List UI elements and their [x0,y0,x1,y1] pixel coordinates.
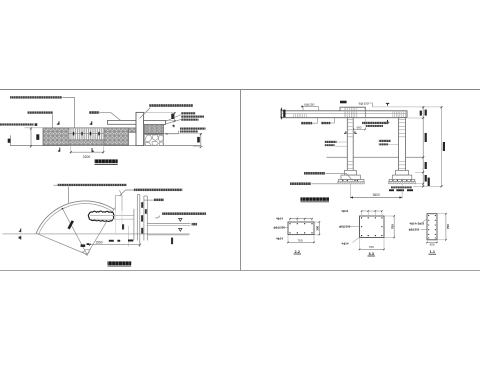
dimension: 1500 from vertex to column [90,244,140,246]
wall: left masonry panel (crosshatch) [43,128,69,145]
dimension: block wall height (right) [164,132,202,134]
wire: dim extension at plan left [128,226,130,247]
wire: radial to arc right end [87,208,115,255]
note: culture stone retaining wall (far left) [0,123,34,125]
svg-text:600: 600 [357,125,362,129]
svg-text:300: 300 [429,243,434,247]
beam: stirrup ticks group 2 [344,108,358,118]
wall: rubble stone base outline [144,135,163,146]
footing: right rebar dots [392,180,393,181]
svg-text:4ϕ14: 4ϕ14 [276,217,283,221]
sheet top rule [0,89,480,91]
column cluster: centerline [139,195,141,247]
node: joint symbol B above wall [91,121,93,125]
column: right column stirrups top [399,118,405,139]
sheet divider [240,90,242,271]
note: second note under beam [321,122,330,124]
svg-text:700: 700 [297,238,302,242]
dimension: small left level chain [9,135,11,145]
wire: leader right column note [388,144,398,146]
wire: leader to pillar from road note [140,108,151,119]
label: rotated wall height value [36,134,39,140]
node: fan vertex angle triangle [82,248,91,255]
stone feature blob (plan) [88,211,114,221]
dimension: outer vertical chain [441,107,443,186]
wire: 3-3 bottom bars leader [352,237,360,243]
section 3-3: rebar dots top [361,217,362,218]
svg-text:700: 700 [446,224,450,229]
dimension: 2-2 top spacing [290,218,312,220]
note: plywood note under cantilever [301,122,312,124]
pier at sign wall end (plan) [115,196,122,211]
wire: wall top extension line (left) [25,127,44,129]
section 1-1: rebar dots left [428,215,429,216]
wire: 2-2 stirrup leader [283,227,288,229]
ground line (section) [327,156,424,158]
section 2-2: rebar dots top [289,223,290,224]
gate pillar [136,112,144,145]
section 1-1: rebar dots right [435,215,436,216]
label: rotated level value [8,139,11,143]
sheet bottom rule [0,270,480,272]
wire: leader pair to eave notes [166,115,181,122]
note: water pipe (plan) [154,199,164,201]
beam: raised block over left column [340,107,365,111]
node: joint symbol A above wall [58,121,60,125]
footing: left footing pad [338,180,364,182]
dimension: 2-2 width 700 [288,241,314,243]
label: overall height rotated [443,142,445,151]
footing: left base hatch band [338,182,365,184]
label: rotated beam depth value [283,110,285,118]
footing: left rebar dots [342,180,343,181]
section 3-3: rebar dots bottom [361,235,362,236]
wire: plan wall line lower [90,218,134,220]
wire: leader second note [331,118,335,123]
label: rotated dim text b [141,215,143,221]
wire: leader into pier [119,190,122,195]
svg-text:6@150: 6@150 [304,103,314,107]
fence: balusters [69,129,104,140]
label: tick mark [301,106,302,108]
column: right column stirrups bottom [399,159,405,178]
note: tile facing annotation [28,111,54,113]
dimension: 3-3 top spacing [362,210,382,212]
wire: 1-1 bars leader [421,219,427,224]
footing: left footing step 2 [341,175,360,179]
svg-text:1-1: 1-1 [430,250,436,254]
note: dense note under right footing [391,186,412,188]
note: aluminium coping annotation (top-left) [10,96,62,98]
note: sign wall annotation (plan top) [58,184,127,186]
footing: right base hatch band [389,182,416,184]
section 3-3: side dots [361,226,362,227]
dimension: pillar-top to beam-top (right) [144,111,175,113]
fence: post finial 2 [81,132,82,136]
beam: stirrup ticks group 3 [393,111,407,117]
label: small dims under plan [109,240,114,242]
label: rotated height value [197,137,200,143]
label: rotated text near blob corner [122,224,124,229]
svg-text:3200: 3200 [83,155,91,159]
node: joint symbol C on block wall top [173,125,175,127]
svg-text:700: 700 [369,245,374,249]
node: joint symbol below wall A [59,148,61,152]
dimension: top annotation A (6x150) [303,105,318,107]
wire: leader from tile note [52,114,54,127]
dimension: wall height (left chain) [30,128,32,146]
section 3-3: column section outline [360,216,385,238]
section 2-2: beam section outline [288,222,314,235]
wire: radial with radius label [62,208,87,254]
svg-text:4ϕ14: 4ϕ14 [341,209,348,213]
footing: left footing step 1 [344,170,356,175]
fence: mid rail [69,133,104,135]
svg-text:ϕ8@200: ϕ8@200 [339,225,351,229]
note: eave note line 2 [181,116,204,118]
node: grade mark lower [179,228,182,231]
curved wall: inner arc [38,204,112,235]
svg-text:700: 700 [390,224,394,229]
wire: leader from inner wall note [155,216,160,218]
note: stirrup spacing note mid-beam line2 [366,125,383,127]
label: drawing title - gate and wall plan [108,261,132,265]
note: bedding layer note [304,172,325,175]
wire: leader from base note [311,183,337,185]
column cluster: edge line 4 [146,196,148,241]
axis line (plan) [3,233,191,235]
wire: leader plywood note [312,118,317,123]
column: left column stirrups bottom [348,160,353,180]
column: right column [399,118,406,179]
node: circled index mark [35,123,38,126]
dimension: 3600 between column centers [349,184,351,198]
label: rotated dim text c [141,228,143,234]
node: section cut mark below beam [386,120,389,122]
label: slope note right of wall pair [192,223,197,226]
wall: right masonry panel (crosshatch) [104,128,129,145]
wall: block facing panel right of pillar [144,124,163,133]
wire: 1-1 stirrup leader [421,228,427,230]
svg-text:2-2: 2-2 [295,250,301,254]
note: stone facing note line 2 [180,131,198,133]
dimension: 3-3 height 700 [393,216,395,238]
fence: railing top rail [69,127,104,129]
wire: 3-3 stirrup leader [350,226,360,228]
fence: post finial 3 [90,132,91,136]
label: offset value [87,243,90,245]
node: axis joint symbol lower [20,236,22,240]
svg-text:300: 300 [316,225,320,230]
svg-text:ϕ8@200: ϕ8@200 [409,227,420,231]
fence: post finial 4 [98,132,99,136]
wire: leader from sign wall note down to arc [53,185,68,203]
dimension: 3200 fence width [70,146,72,153]
note: eave note line 1 [181,112,196,114]
column cluster: edge line 2 [136,195,138,241]
canopy beam right of pillar [144,120,166,124]
beam: main top beam [281,111,407,118]
label: level mark top-left of beam zone [340,101,347,104]
column cluster: top caps [137,194,140,196]
ground line of elevation [10,145,201,147]
note: water pipe annotation [89,111,99,114]
column cluster (plan): edge line 1 [133,209,135,241]
dimension: 3-3 width 700 [360,248,385,250]
wire: radial to arc left end [36,233,87,254]
label: angle value [81,244,86,247]
wire: leader left column note [337,141,347,143]
wall: lintel strip over gate recess [129,128,137,132]
node: radial end dot [62,208,64,210]
svg-text:3600: 3600 [373,193,380,197]
beam: stirrup ticks group 1 [293,114,307,118]
dimension: 1-1 width 300 [427,241,437,243]
dimension: 1-1 height 700 [445,214,447,240]
column cluster: edge line 3 [143,196,145,241]
svg-text:4ϕ14: 4ϕ14 [342,241,349,245]
wire: leader to coping note [120,190,134,196]
label: rotated chain values [420,111,422,116]
dimension: 2-2 height 300 [318,222,320,235]
wall: dark string course under blocks [144,133,163,136]
fence: post finial 1 [73,132,74,136]
wire: lower plan wall line [147,234,189,236]
node: grade mark upper [179,218,182,221]
note: base concrete note [290,182,311,185]
label: rotated note below wall [171,238,173,245]
note: roadway finish annotation [149,104,193,107]
wall: rubble stones [145,135,152,142]
dimension: 600 step offset at left column [353,128,365,130]
label: small dims under right footing [389,189,394,191]
wire: leader to water pipe note [144,199,154,201]
svg-text:6@150: 6@150 [359,101,369,105]
fence: lower curb band [69,140,104,146]
dimension: right vertical chain [373,106,442,108]
note: inner wall stone facing (plan) [162,212,206,215]
wire: leader from water pipe note to canopy beam [100,113,121,121]
column: left column [347,118,353,181]
dimension: beam depth at left end [280,108,282,120]
wire: leader into left footing [325,174,352,181]
section 2-2: rebar dots bottom [289,232,290,233]
note: left column notes [325,141,337,143]
node: joint symbol below wall B [91,148,93,152]
canopy beam left of pillar [108,120,137,124]
footing: right footing step 1 [396,170,409,175]
note: right column notes [379,140,391,142]
wire: leader left column note line2 [335,145,347,147]
label: rotated dim text d [145,209,147,214]
wire: leader from coping note [63,98,75,128]
curved wall: outer arc [36,201,114,233]
note: stirrup spacing note mid-beam line1 [362,122,389,124]
svg-text:4ϕ14: 4ϕ14 [276,237,283,241]
wire: plan wall line upper (through blob to column) [90,214,134,216]
section 1-1: wall pier section outline [427,214,437,240]
svg-text:3-3: 3-3 [368,252,374,256]
beam: mid line [281,113,407,115]
note: aluminium coping note (plan right) [134,189,183,191]
column: left column stirrups top [348,118,353,139]
node: axis joint symbol upper [20,228,22,232]
label: rotated dim text a [141,202,143,208]
wire: plan wall pair to the right [147,222,190,224]
footing: right footing pad [389,179,415,181]
node: section cut mark above beam (right column line) [386,103,389,105]
svg-text:1500: 1500 [95,241,102,245]
label: rotated dim value [171,114,174,119]
label: drawing title - gate and wall elevation [95,159,118,163]
wire: leader to stone facing note [165,131,179,134]
node: cut mark left of left column [344,131,347,133]
note: eave note line 3 [181,119,199,121]
label: drawing title - gate frame reinforcement [300,197,329,200]
footing: right footing step 2 [392,175,412,179]
node: cut mark right of left column [354,131,357,133]
label: R8000 rotated along radial [67,220,74,229]
note: stone facing note line 1 [180,128,206,130]
